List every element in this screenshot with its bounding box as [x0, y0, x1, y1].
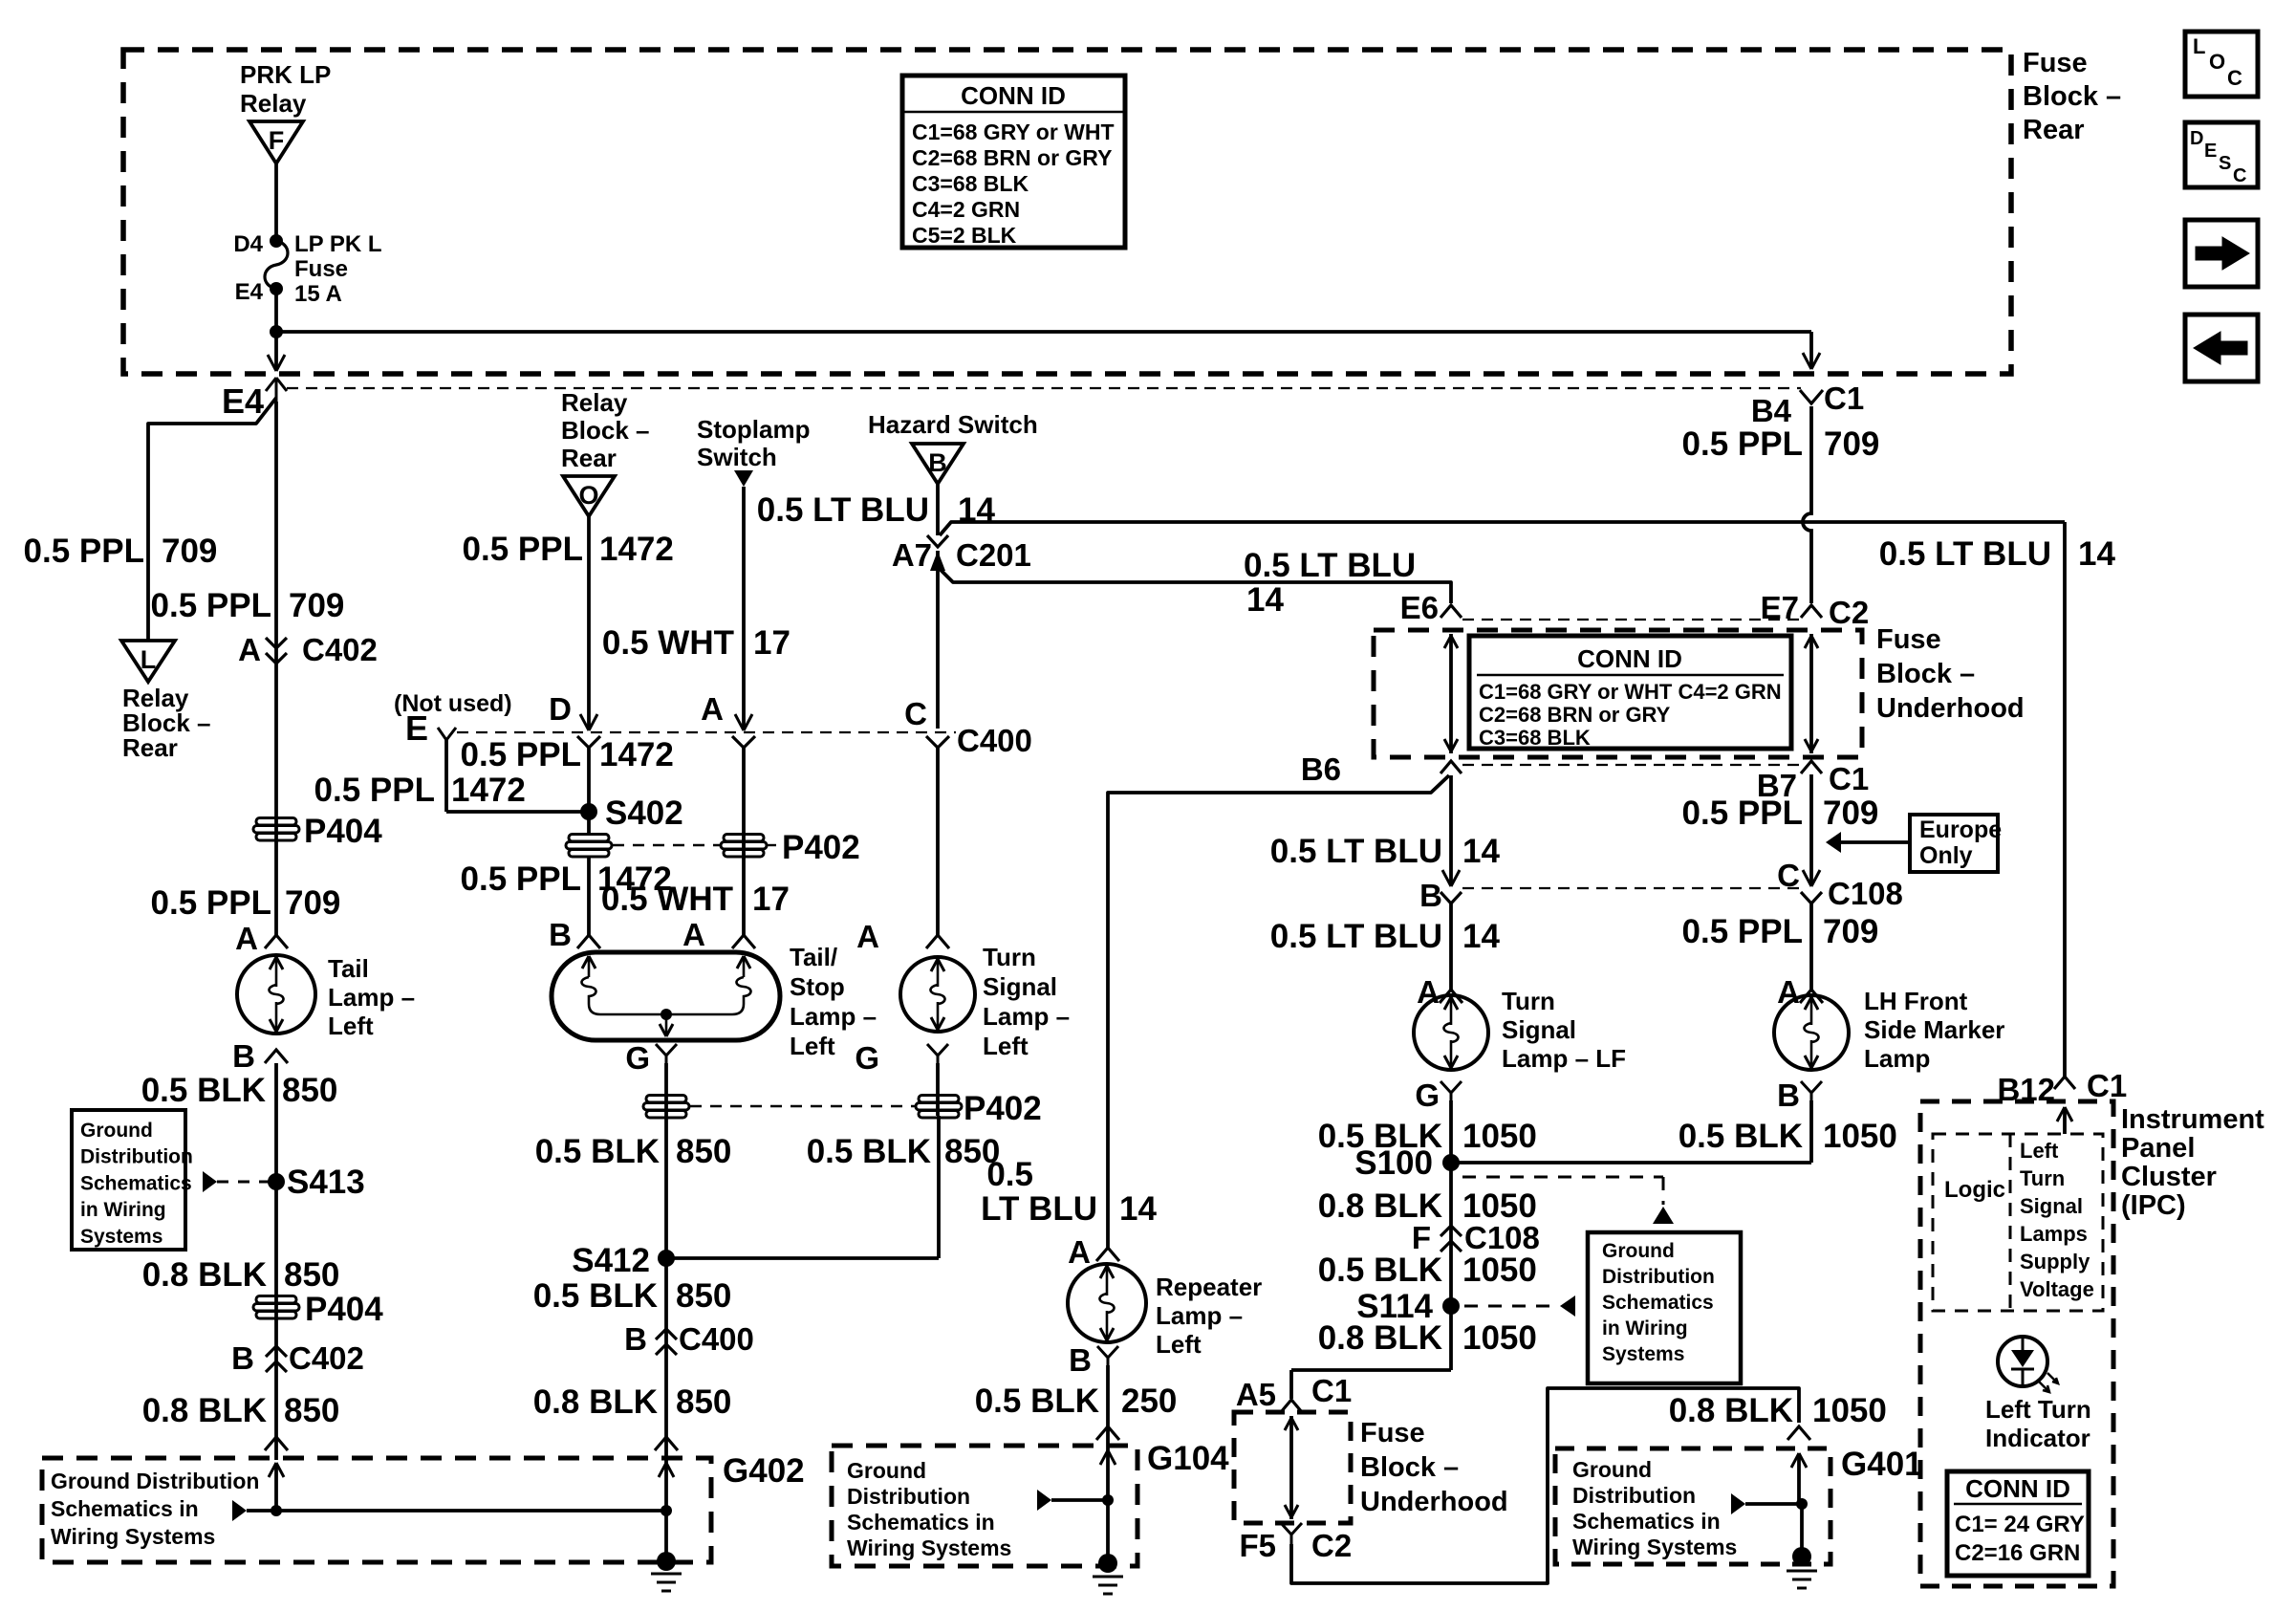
DESC nav box [2185, 122, 2258, 187]
tail/stop lamp G pin [625, 1040, 677, 1076]
svg-text:709: 709 [1824, 425, 1879, 463]
svg-text:Block –: Block – [1360, 1452, 1459, 1483]
relay triangle connector F [249, 121, 303, 163]
svg-text:LH Front: LH Front [1864, 987, 1968, 1015]
wire relay F to fuse D4 [274, 163, 278, 241]
svg-text:850: 850 [676, 1133, 731, 1170]
arrow into G402 (center) [659, 1463, 674, 1477]
svg-text:C2=68 BRN or GRY: C2=68 BRN or GRY [912, 145, 1112, 170]
connector B C400 crossing [624, 1321, 754, 1357]
instrument panel cluster dashed box [1920, 1101, 2113, 1586]
svg-text:F: F [1412, 1220, 1431, 1255]
G401 internal wire [1731, 1493, 1808, 1514]
svg-text:Wiring Systems: Wiring Systems [1572, 1535, 1737, 1559]
svg-text:Block –: Block – [2023, 81, 2121, 112]
svg-text:C1: C1 [1829, 761, 1869, 796]
svg-text:B4: B4 [1751, 393, 1792, 428]
svg-text:Lamp –: Lamp – [983, 1002, 1070, 1031]
svg-text:C2: C2 [1829, 595, 1869, 630]
svg-text:P404: P404 [305, 1291, 383, 1328]
svg-text:Schematics in: Schematics in [51, 1496, 199, 1521]
svg-text:F5: F5 [1239, 1528, 1276, 1563]
svg-text:Hazard Switch: Hazard Switch [868, 410, 1038, 439]
IPC logic inner dashed box [1933, 1134, 2103, 1311]
svg-text:Supply: Supply [2020, 1250, 2090, 1274]
G402 ground point [651, 1511, 682, 1591]
wire label 0.5 WHT 17 (above C400) [602, 624, 791, 662]
svg-text:Rear: Rear [122, 733, 178, 762]
connector E6 crossing [1400, 590, 1462, 625]
svg-text:B: B [928, 448, 947, 477]
wire label 0.5 PPL 709 (E4 column) [151, 587, 345, 624]
svg-text:S: S [2219, 153, 2231, 174]
svg-text:1472: 1472 [451, 772, 526, 809]
inline connector P402 row [566, 829, 860, 866]
tail lamp A pin [235, 921, 288, 956]
svg-text:CONN ID: CONN ID [961, 81, 1066, 110]
fuse block underhood name [1876, 624, 2025, 724]
svg-text:Relay: Relay [240, 89, 307, 118]
svg-text:0.5 WHT: 0.5 WHT [601, 881, 733, 918]
wire label 0.5 PPL 709 (upper left) [24, 533, 218, 570]
turn signal lamp - LF bulb [1414, 995, 1488, 1070]
relay block rear name [122, 684, 211, 762]
wire B6 down to C108 [1449, 775, 1453, 884]
wire repeater B to G104 [1106, 1365, 1110, 1500]
svg-text:C1=68 GRY or WHT: C1=68 GRY or WHT [912, 120, 1115, 144]
tail lamp - left bulb [237, 955, 315, 1034]
europe only arrow [1826, 832, 1910, 853]
G104 ground point [1093, 1500, 1123, 1594]
svg-text:Distribution: Distribution [80, 1146, 193, 1168]
wire label 0.8 BLK 1050 (below S114) [1318, 1319, 1537, 1357]
back nav box [2185, 315, 2258, 381]
repeater lamp B pin [1069, 1342, 1118, 1378]
tail/stop lamp A pin [682, 917, 755, 952]
svg-text:709: 709 [289, 587, 344, 624]
C400 E stub (not used) [394, 690, 512, 812]
turn signal lamp left G pin [855, 1040, 948, 1076]
wire label 0.5 BLK 850 (below S412) [533, 1277, 732, 1315]
svg-text:C5=2 BLK: C5=2 BLK [912, 223, 1017, 248]
svg-text:850: 850 [284, 1256, 339, 1294]
svg-text:Systems: Systems [80, 1226, 162, 1248]
svg-text:D: D [549, 691, 572, 727]
svg-text:Indicator: Indicator [1985, 1424, 2090, 1452]
svg-text:Distribution: Distribution [1572, 1483, 1696, 1508]
svg-text:Side Marker: Side Marker [1864, 1015, 2004, 1044]
tail lamp - left name [328, 954, 415, 1040]
connector B12 C1 crossing [1997, 1068, 2127, 1107]
wire label 0.5 LT BLU 14 (below hazard) [757, 491, 996, 529]
svg-text:0.5 BLK: 0.5 BLK [807, 1133, 931, 1170]
connector C crossing at C108 [1777, 858, 1903, 911]
svg-text:250: 250 [1121, 1382, 1177, 1420]
wire label 0.5 BLK 1050 (G) [1318, 1118, 1537, 1155]
svg-text:C: C [2227, 66, 2242, 90]
svg-text:B: B [624, 1321, 647, 1357]
arrow into G401 [1791, 1453, 1807, 1504]
svg-text:1472: 1472 [599, 531, 674, 568]
svg-text:A: A [235, 921, 258, 956]
tail/stop lamp name [790, 943, 877, 1060]
svg-text:Schematics in: Schematics in [847, 1510, 995, 1535]
svg-text:Cluster: Cluster [2121, 1162, 2217, 1192]
fuse value label [294, 231, 382, 307]
wire B7 to C108 [1809, 774, 1813, 884]
svg-text:Left: Left [790, 1032, 835, 1060]
CONN ID table (fuse block rear) [902, 76, 1125, 248]
svg-text:1050: 1050 [1462, 1118, 1537, 1155]
svg-text:850: 850 [284, 1392, 339, 1429]
svg-text:C108: C108 [1464, 1220, 1540, 1255]
wire turn signal G to S412 [666, 1063, 939, 1258]
connector B C402 crossing [231, 1340, 364, 1376]
svg-text:0.5 WHT: 0.5 WHT [602, 624, 734, 662]
wire horizontal feed to B4 [276, 332, 1820, 369]
svg-text:C108: C108 [1828, 876, 1903, 911]
svg-text:A: A [701, 691, 724, 727]
underhood internal wire E6-B6 [1444, 634, 1458, 753]
tail/stop lamp B pin [549, 917, 600, 952]
svg-text:Ground: Ground [80, 1120, 153, 1142]
wire lamp G to P402 [664, 1063, 668, 1506]
svg-text:S413: S413 [287, 1164, 365, 1201]
svg-text:Tail: Tail [328, 954, 369, 983]
wire O down to C400 [580, 516, 597, 730]
wire label 0.8 BLK 1050 (below S100) [1318, 1187, 1537, 1225]
svg-text:P404: P404 [304, 813, 382, 850]
svg-text:E: E [405, 708, 428, 748]
side marker lamp A pin [1777, 974, 1823, 1010]
svg-text:Underhood: Underhood [1876, 693, 2025, 724]
turn signal lamp left A pin [856, 919, 949, 954]
wire label 0.5 PPL 709 (above tail lamp) [151, 884, 341, 922]
svg-text:Turn: Turn [983, 943, 1036, 971]
turn signal LF G pin [1415, 1078, 1462, 1113]
svg-text:Distribution: Distribution [847, 1484, 970, 1509]
svg-text:Tail/: Tail/ [790, 943, 837, 971]
svg-text:850: 850 [282, 1072, 337, 1109]
svg-text:Schematics: Schematics [80, 1172, 192, 1194]
svg-text:CONN ID: CONN ID [1577, 644, 1682, 673]
svg-text:PRK LP: PRK LP [240, 60, 331, 89]
svg-text:A: A [238, 632, 261, 667]
svg-text:Voltage: Voltage [2020, 1277, 2094, 1301]
svg-text:Repeater: Repeater [1156, 1273, 1262, 1301]
svg-text:C2=68 BRN or GRY: C2=68 BRN or GRY [1479, 703, 1671, 727]
svg-text:709: 709 [1823, 913, 1878, 950]
C400 pin C [904, 696, 1032, 758]
repeater lamp A pin [1068, 1234, 1119, 1270]
wire B4 to E7 with hop [1803, 406, 1811, 603]
svg-text:C1: C1 [1824, 381, 1864, 416]
wire label 0.5 PPL 1472 (above lamp) [461, 860, 672, 898]
svg-text:Instrument: Instrument [2121, 1104, 2264, 1135]
svg-text:S100: S100 [1354, 1144, 1433, 1182]
svg-text:Rear: Rear [2023, 115, 2085, 145]
svg-text:0.8 BLK: 0.8 BLK [142, 1256, 267, 1294]
svg-text:Ground: Ground [1572, 1457, 1652, 1482]
svg-text:Lamp: Lamp [1864, 1044, 1930, 1073]
tail lamp B pin [232, 1038, 288, 1074]
svg-text:0.5 PPL: 0.5 PPL [24, 533, 144, 570]
arrow into IPC [2057, 1107, 2072, 1134]
svg-text:A: A [856, 919, 879, 954]
IPC logic label [1944, 1177, 2005, 1203]
G402 box annotation text [51, 1469, 259, 1549]
svg-text:Signal: Signal [2020, 1194, 2083, 1218]
instrument panel cluster name [2121, 1104, 2264, 1221]
svg-text:G104: G104 [1147, 1440, 1229, 1477]
svg-text:P402: P402 [782, 829, 860, 866]
connector B6 crossing [1301, 751, 1462, 787]
left turn indicator LED symbol [1998, 1337, 2058, 1392]
side marker lamp name [1864, 987, 2004, 1073]
svg-text:0.5 BLK: 0.5 BLK [141, 1072, 266, 1109]
svg-text:Turn: Turn [1502, 987, 1555, 1015]
connector A5 C1 crossing [1236, 1373, 1352, 1412]
S100 dashed reference route [1462, 1177, 1674, 1224]
G104 box annotation text [847, 1458, 1011, 1560]
stoplamp switch name [697, 415, 810, 471]
wire S402 to P402 [587, 748, 591, 835]
connector crossing into G402 (center) [655, 1437, 678, 1450]
svg-text:Ground: Ground [1602, 1240, 1675, 1262]
ground distribution reference box (center) [1588, 1232, 1741, 1383]
wire label 0.5 BLK 850 (below tail lamp) [141, 1072, 338, 1109]
svg-text:0.5 PPL: 0.5 PPL [1682, 913, 1803, 950]
connector crossing into G401 [1787, 1426, 1810, 1440]
svg-text:0.5 PPL: 0.5 PPL [151, 884, 271, 922]
svg-text:0.5 PPL: 0.5 PPL [314, 772, 435, 809]
svg-text:Ground Distribution: Ground Distribution [51, 1469, 259, 1493]
svg-text:L: L [2193, 34, 2205, 58]
fuse block underhood small dashed box [1234, 1412, 1351, 1523]
arrow into G402 [269, 1463, 284, 1511]
wire label 0.5 LT BLU 14 (above B) [1270, 833, 1501, 870]
hazard switch name [868, 410, 1038, 439]
svg-text:Ground: Ground [847, 1458, 926, 1483]
svg-text:0.5 LT BLU: 0.5 LT BLU [757, 491, 929, 529]
svg-text:Fuse: Fuse [1876, 624, 1941, 655]
svg-text:E4: E4 [235, 279, 264, 305]
svg-text:B: B [1419, 878, 1442, 913]
wire label 0.5 WHT 17 (above lamp A) [601, 881, 790, 918]
CONN ID table (underhood) [1469, 636, 1791, 750]
svg-text:A5: A5 [1236, 1377, 1276, 1412]
svg-text:Lamp – LF: Lamp – LF [1502, 1044, 1626, 1073]
svg-text:14: 14 [1119, 1190, 1157, 1228]
IPC left turn signal supply text [2020, 1139, 2094, 1301]
C201 banner wire upper to fuse block underhood E7 side [940, 522, 2065, 535]
PRK LP Relay label [240, 60, 331, 118]
svg-text:Underhood: Underhood [1360, 1487, 1508, 1517]
connector B4 C1 crossing [1751, 381, 1864, 428]
svg-text:0.5 PPL: 0.5 PPL [461, 860, 581, 898]
svg-text:Block –: Block – [561, 416, 650, 445]
svg-text:B: B [549, 917, 572, 952]
svg-text:Lamp –: Lamp – [790, 1002, 877, 1031]
wire label 0.5 PPL 1472 (E stub) [314, 772, 526, 809]
svg-text:G: G [625, 1040, 650, 1076]
relay block rear triangle L [121, 641, 175, 682]
svg-text:14: 14 [1462, 918, 1500, 955]
wire label 0.5 LT BLU 14 (below B) [1270, 918, 1501, 955]
svg-text:Left: Left [983, 1032, 1029, 1060]
wire F5 to G401 [1291, 1388, 1799, 1583]
svg-text:Rear: Rear [561, 444, 617, 472]
svg-text:Schematics in: Schematics in [1572, 1509, 1721, 1534]
fuse block underhood dashed box [1374, 630, 1862, 757]
svg-text:0.5 BLK: 0.5 BLK [1318, 1252, 1442, 1289]
svg-text:0.8 BLK: 0.8 BLK [1318, 1319, 1442, 1357]
svg-text:0.8 BLK: 0.8 BLK [533, 1383, 658, 1421]
connector B crossing at C108 [1419, 870, 1462, 913]
connector C1 dashed row [1462, 764, 1799, 766]
svg-text:709: 709 [162, 533, 217, 570]
svg-text:Europe: Europe [1919, 816, 2002, 843]
junction dot on E4 wire [270, 325, 283, 338]
G402 internal bus wire [232, 1500, 672, 1521]
svg-text:Left: Left [328, 1012, 374, 1040]
fuse block underhood small name [1360, 1418, 1508, 1517]
inline connector P404 [253, 813, 382, 850]
turn signal lamp - left name [983, 943, 1070, 1060]
svg-text:Signal: Signal [1502, 1015, 1576, 1044]
svg-text:C: C [2233, 165, 2246, 186]
wire label 0.8 BLK 850 (above G402 center) [533, 1383, 732, 1421]
G401 ground point [1787, 1504, 1817, 1588]
svg-text:G: G [1415, 1078, 1440, 1113]
svg-text:0.5 LT BLU: 0.5 LT BLU [1244, 547, 1416, 584]
wire label 0.5 BLK 850 (tail/stop G) [535, 1133, 732, 1170]
svg-text:G: G [855, 1040, 879, 1076]
LH front side marker lamp bulb [1774, 995, 1849, 1070]
arrow into G104 [1100, 1450, 1116, 1465]
svg-text:Fuse: Fuse [2023, 48, 2088, 78]
wire label 0.5 PPL 709 (B7) [1682, 795, 1879, 832]
svg-text:C400: C400 [957, 723, 1032, 758]
wire label 0.5 BLK 1050 (marker) [1679, 1118, 1897, 1155]
svg-text:B: B [1777, 1078, 1800, 1113]
G402 ground distribution dashed box [42, 1452, 805, 1562]
svg-text:D: D [2190, 128, 2203, 149]
svg-text:Wiring Systems: Wiring Systems [51, 1524, 215, 1549]
fuse block - rear dashed outline box [123, 50, 2011, 374]
connector F C108 crossing [1412, 1220, 1540, 1255]
svg-text:Turn: Turn [2020, 1166, 2065, 1190]
svg-text:B: B [231, 1340, 254, 1376]
svg-text:C2: C2 [1311, 1528, 1352, 1563]
svg-text:Fuse: Fuse [1360, 1418, 1425, 1448]
svg-text:E: E [2204, 141, 2217, 162]
svg-text:1472: 1472 [599, 736, 674, 773]
C400 pin D [549, 691, 600, 748]
svg-text:1050: 1050 [1462, 1252, 1537, 1289]
svg-text:Wiring Systems: Wiring Systems [847, 1535, 1011, 1560]
wire label 0.5 PPL 709 (B4) [1682, 425, 1880, 463]
connector C108 dashed row [1462, 887, 1799, 889]
svg-text:850: 850 [676, 1277, 731, 1315]
wire label 0.8 BLK 1050 (G401) [1669, 1392, 1887, 1429]
svg-text:Panel: Panel [2121, 1133, 2195, 1164]
stoplamp switch arrow [734, 470, 753, 730]
connector crossing into G104 [1096, 1426, 1119, 1440]
svg-text:Signal: Signal [983, 972, 1057, 1001]
wire hazard B down to C201 [936, 484, 940, 535]
turn signal LF A pin [1417, 974, 1462, 1010]
turn signal LF name [1502, 987, 1626, 1073]
svg-text:0.8 BLK: 0.8 BLK [1669, 1392, 1793, 1429]
hazard switch triangle B [912, 444, 964, 484]
svg-text:17: 17 [753, 624, 791, 662]
svg-text:0.8 BLK: 0.8 BLK [142, 1392, 267, 1429]
inline connector P404 lower [253, 1291, 383, 1328]
wire marker B to S100 [1451, 1100, 1811, 1163]
svg-text:Lamp –: Lamp – [1156, 1301, 1243, 1330]
fuse LP PK L 15 A squiggle [265, 241, 288, 289]
svg-text:D4: D4 [233, 231, 263, 257]
connector crossing into G402 [265, 1437, 288, 1450]
svg-text:Stop: Stop [790, 972, 845, 1001]
svg-text:0.5 PPL: 0.5 PPL [1682, 795, 1803, 832]
svg-text:LT BLU: LT BLU [981, 1190, 1097, 1228]
forward nav box [2185, 220, 2258, 287]
wire E4 down to connector [268, 289, 285, 371]
wire P402 to lamp B pin [587, 856, 591, 935]
G104 internal wire [1037, 1490, 1114, 1511]
C400 pin A [701, 691, 755, 748]
svg-text:14: 14 [2078, 535, 2115, 573]
left turn indicator label [1985, 1395, 2091, 1452]
svg-text:1050: 1050 [1462, 1319, 1537, 1357]
svg-text:C201: C201 [956, 537, 1031, 573]
connector C400 dashed row [457, 731, 956, 733]
svg-text:Fuse: Fuse [294, 256, 348, 282]
connector E4 crossing [222, 378, 287, 421]
C201 banner wire lower to E6 [941, 570, 1451, 603]
svg-text:F: F [269, 126, 285, 155]
svg-text:0.5 BLK: 0.5 BLK [1679, 1118, 1803, 1155]
svg-text:S402: S402 [605, 795, 683, 832]
connector C2 dashed row [1462, 619, 1799, 620]
svg-text:Lamp –: Lamp – [328, 983, 415, 1012]
wire label 0.5 BLK 250 [975, 1382, 1178, 1420]
relay block - rear name (center) [561, 388, 650, 472]
LOC nav box [2185, 32, 2258, 97]
svg-text:0.5 PPL: 0.5 PPL [1682, 425, 1803, 463]
svg-text:0.5 LT BLU: 0.5 LT BLU [1879, 535, 2051, 573]
S114 dashed reference route [1464, 1295, 1575, 1317]
svg-text:C402: C402 [289, 1340, 364, 1376]
svg-text:0.5 PPL: 0.5 PPL [461, 736, 581, 773]
wire C108 to side marker lamp [1809, 903, 1813, 990]
svg-text:14: 14 [1462, 833, 1500, 870]
svg-text:A: A [1068, 1234, 1091, 1270]
wire label 0.5 BLK 1050 (below F) [1318, 1252, 1537, 1289]
underhood small internal wire [1285, 1416, 1298, 1519]
wire banner to IPC B12 [2063, 522, 2067, 1077]
svg-text:17: 17 [752, 881, 790, 918]
connector C201 A7 crossing [892, 535, 1031, 935]
svg-text:(IPC): (IPC) [2121, 1190, 2186, 1221]
svg-text:Schematics: Schematics [1602, 1292, 1714, 1314]
svg-text:C1: C1 [1311, 1373, 1352, 1408]
svg-text:1050: 1050 [1823, 1118, 1897, 1155]
svg-text:C2=16 GRN: C2=16 GRN [1955, 1540, 2080, 1566]
svg-text:E4: E4 [222, 381, 264, 421]
